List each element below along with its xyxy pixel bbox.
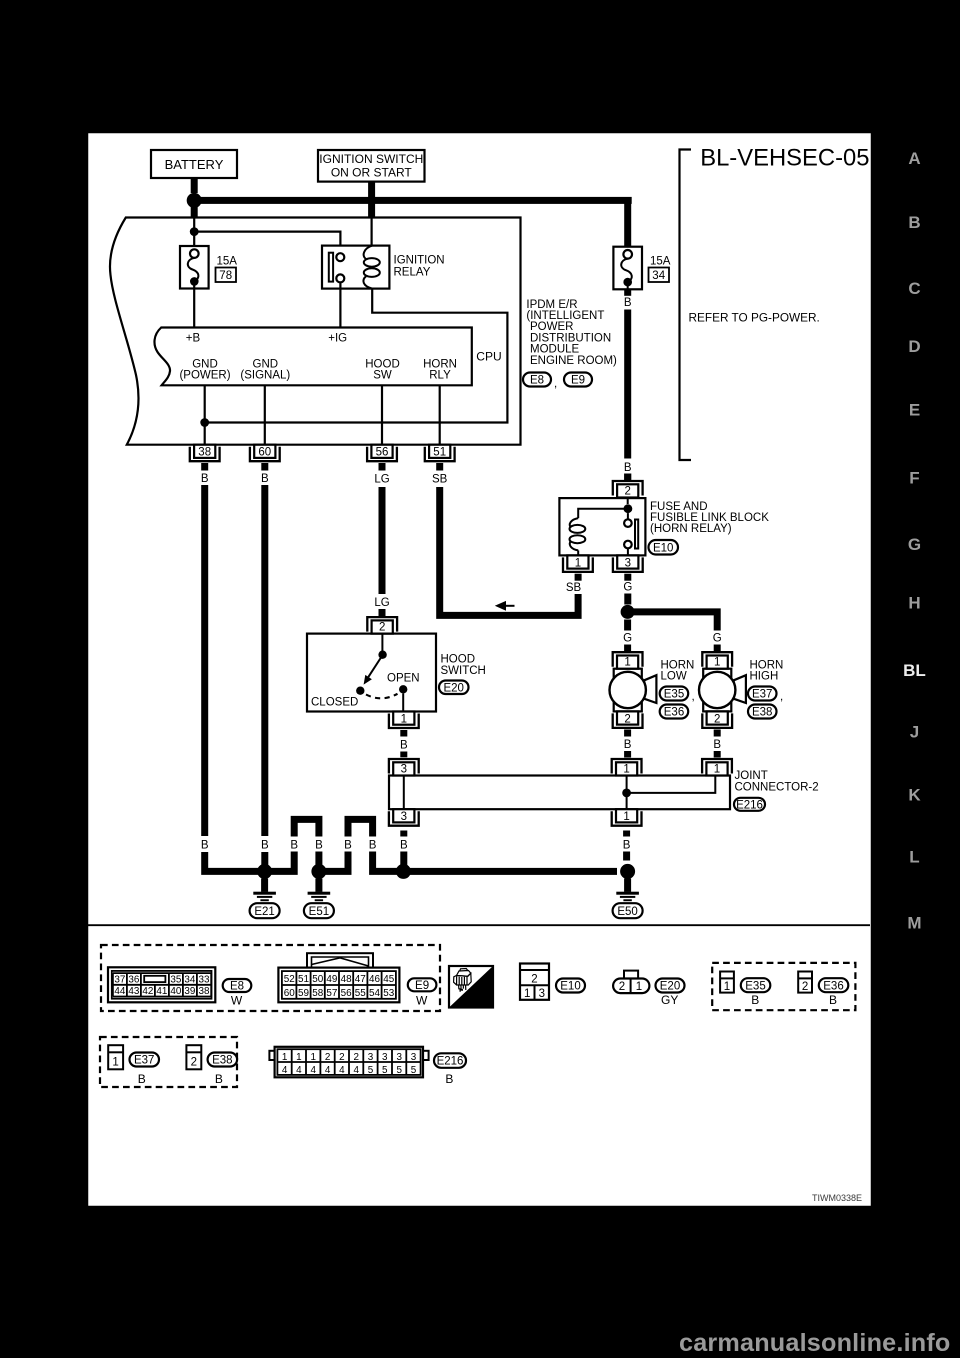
svg-text:(HORN RELAY): (HORN RELAY): [650, 523, 732, 535]
svg-text:2: 2: [353, 1052, 359, 1063]
svg-text:E51: E51: [309, 906, 329, 918]
svg-text:LOW: LOW: [661, 671, 687, 683]
svg-text:+IG: +IG: [328, 332, 347, 344]
node battery junction: [187, 193, 202, 208]
IPDM E/R box: [110, 218, 521, 445]
svg-text:E35: E35: [664, 689, 684, 701]
svg-text:BATTERY: BATTERY: [165, 157, 224, 172]
svg-text:44: 44: [114, 986, 125, 997]
joint connector pin 1 bottom: [612, 809, 642, 826]
ground E50: [616, 878, 639, 901]
wire G to horn low: [624, 620, 631, 631]
wire B joint pin1 to E50: [623, 831, 630, 837]
svg-text:3: 3: [401, 811, 407, 823]
svg-text:,: ,: [554, 378, 557, 390]
connector E36 face: [798, 972, 812, 994]
ground E51: [308, 878, 331, 901]
svg-text:2: 2: [325, 1052, 331, 1063]
horn high E37/E38: [699, 669, 746, 712]
svg-text:B: B: [713, 739, 721, 751]
svg-text:B: B: [315, 840, 323, 852]
svg-text:SB: SB: [566, 582, 582, 594]
svg-text:,: ,: [780, 691, 783, 703]
wire GND(POWER) to pin 38: [204, 385, 206, 445]
wire B hood switch to joint connector: [400, 730, 407, 737]
wire battery to IPDM: [191, 207, 198, 218]
svg-text:FUSIBLE LINK BLOCK: FUSIBLE LINK BLOCK: [650, 512, 769, 524]
connector E8 oval: [523, 373, 557, 391]
wire B horn high to joint connector: [714, 730, 721, 737]
svg-text:B: B: [624, 297, 632, 309]
svg-text:3: 3: [396, 1052, 402, 1063]
svg-text:4: 4: [325, 1065, 331, 1076]
svg-text:55: 55: [355, 988, 366, 999]
hood switch pin 1: [389, 712, 419, 729]
horn high pin 1: [702, 652, 732, 669]
node E50: [620, 864, 635, 879]
wire B joint pin3 to ground bus: [400, 831, 407, 837]
svg-text:33: 33: [199, 975, 210, 986]
svg-text:36: 36: [128, 975, 139, 986]
svg-text:HIGH: HIGH: [750, 671, 779, 683]
hood switch pin 2: [367, 617, 397, 634]
svg-text:5: 5: [396, 1065, 402, 1076]
horn low pin 1: [613, 652, 643, 669]
svg-text:F: F: [909, 468, 919, 487]
svg-text:2: 2: [624, 486, 630, 498]
svg-text:2: 2: [531, 974, 537, 986]
svg-text:34: 34: [652, 270, 665, 282]
connector E36 oval: [660, 705, 689, 719]
node E21: [257, 864, 272, 879]
wire ground bus to E50: [403, 868, 617, 875]
svg-text:1: 1: [282, 1052, 288, 1063]
svg-text:2: 2: [191, 1057, 197, 1069]
E36 oval and B: [819, 978, 849, 992]
svg-text:43: 43: [128, 986, 139, 997]
wire B horn low to joint connector: [624, 730, 631, 737]
svg-text:2: 2: [802, 981, 808, 993]
wire main power bus: [200, 197, 632, 204]
svg-text:2: 2: [379, 622, 385, 634]
svg-text:51: 51: [433, 447, 446, 459]
joint connector pin 3 top: [389, 759, 419, 776]
svg-text:E9: E9: [415, 980, 429, 992]
svg-text:JOINT: JOINT: [735, 770, 768, 782]
svg-text:carmanualsonline.info: carmanualsonline.info: [679, 1329, 951, 1357]
svg-text:IGNITION: IGNITION: [394, 255, 445, 267]
bracket refer to pg-power: [680, 150, 692, 461]
svg-text:B: B: [624, 739, 632, 751]
svg-text:3: 3: [625, 557, 631, 569]
connector E20 oval: [439, 681, 469, 695]
ignition relay U1: [322, 246, 445, 289]
svg-text:E20: E20: [660, 981, 680, 993]
svg-text:G: G: [713, 633, 722, 645]
svg-text:RELAY: RELAY: [394, 267, 431, 279]
svg-text:REFER TO PG-POWER.: REFER TO PG-POWER.: [689, 311, 820, 325]
svg-text:1: 1: [401, 713, 407, 725]
svg-text:K: K: [908, 786, 921, 805]
svg-text:W: W: [231, 994, 243, 1008]
wire bus corner down to fuse 34: [624, 200, 631, 247]
svg-text:E9: E9: [571, 375, 585, 387]
svg-text:E10: E10: [560, 981, 580, 993]
svg-text:GND: GND: [192, 358, 218, 370]
svg-text:54: 54: [369, 988, 380, 999]
wire battery stub: [191, 178, 198, 193]
svg-text:L: L: [909, 847, 919, 866]
connector E20 face: [613, 971, 649, 994]
svg-text:1: 1: [724, 981, 730, 993]
svg-text:1: 1: [623, 764, 629, 776]
svg-text:48: 48: [341, 974, 352, 985]
svg-text:4: 4: [282, 1065, 288, 1076]
node +B branch: [190, 227, 199, 236]
wire ignition relay coil output to horn relay pin: [206, 289, 507, 423]
svg-text:E35: E35: [745, 980, 765, 992]
svg-text:E38: E38: [212, 1055, 232, 1067]
svg-text:3: 3: [539, 988, 545, 1000]
E37 oval and B: [130, 1053, 160, 1067]
svg-text:1: 1: [112, 1057, 118, 1069]
svg-text:5: 5: [382, 1065, 388, 1076]
svg-text:42: 42: [142, 986, 153, 997]
svg-text:1: 1: [296, 1052, 302, 1063]
svg-text:B: B: [344, 840, 352, 852]
svg-text:51: 51: [298, 974, 309, 985]
svg-text:47: 47: [355, 974, 366, 985]
svg-text:3: 3: [411, 1052, 417, 1063]
wire HORN RLY to pin 51: [439, 385, 441, 445]
E38 oval and B: [208, 1053, 238, 1067]
svg-text:41: 41: [156, 986, 167, 997]
connector E38 face: [186, 1045, 201, 1069]
svg-text:3: 3: [382, 1052, 388, 1063]
svg-text:60: 60: [284, 988, 295, 999]
svg-text:2: 2: [624, 713, 630, 725]
wire +B into CPU: [193, 285, 195, 328]
svg-text:58: 58: [312, 988, 323, 999]
battery B+ box: [151, 150, 237, 178]
svg-text:2: 2: [619, 981, 625, 993]
svg-text:1: 1: [714, 657, 720, 669]
svg-text:60: 60: [258, 447, 271, 459]
svg-text:39: 39: [184, 986, 195, 997]
svg-text:G: G: [908, 535, 921, 554]
svg-text:FUSE AND: FUSE AND: [650, 501, 708, 513]
svg-text:C: C: [908, 279, 920, 298]
svg-text:5: 5: [368, 1065, 374, 1076]
svg-text:37: 37: [114, 975, 125, 986]
label FUSE AND FUSIBLE LINK BLOCK: [650, 501, 769, 535]
svg-text:E216: E216: [736, 799, 763, 811]
wire staple 2: [348, 819, 373, 836]
svg-text:B: B: [400, 840, 408, 852]
svg-text:15A: 15A: [217, 256, 238, 268]
wire +IG from relay contact: [339, 282, 341, 327]
sidebar index letters: [903, 149, 926, 932]
svg-text:SWITCH: SWITCH: [441, 665, 486, 677]
svg-text:D: D: [908, 337, 920, 356]
svg-text:LG: LG: [374, 597, 389, 609]
E20 oval and GY: [656, 979, 685, 993]
hood switch E20: [307, 634, 436, 712]
svg-text:CPU: CPU: [476, 350, 501, 364]
wire G branch to horn high: [633, 612, 717, 631]
svg-text:GND: GND: [253, 358, 279, 370]
svg-text:HOOD: HOOD: [441, 654, 476, 666]
svg-text:56: 56: [341, 988, 352, 999]
svg-text:DISTRIBUTION: DISTRIBUTION: [530, 332, 611, 344]
svg-text:1: 1: [624, 657, 630, 669]
connector E35 face: [720, 972, 734, 994]
svg-text:1: 1: [575, 557, 581, 569]
svg-text:4: 4: [339, 1065, 345, 1076]
node feedback on GND(POWER): [200, 418, 209, 427]
svg-text:3: 3: [368, 1052, 374, 1063]
svg-text:B: B: [623, 840, 631, 852]
svg-text:B: B: [215, 1072, 223, 1086]
svg-text:E216: E216: [437, 1056, 464, 1068]
svg-text:3: 3: [401, 764, 407, 776]
joint connector pin 3 bottom: [389, 809, 419, 826]
E10 oval: [556, 979, 585, 993]
E9 oval and W: [408, 978, 437, 991]
svg-text:(INTELLIGENT: (INTELLIGENT: [526, 310, 604, 322]
svg-text:SB: SB: [432, 474, 448, 486]
svg-text:A: A: [908, 149, 920, 168]
svg-text:SW: SW: [373, 370, 392, 382]
svg-text:B: B: [261, 840, 269, 852]
svg-text:HOOD: HOOD: [365, 358, 400, 370]
svg-text:ENGINE ROOM): ENGINE ROOM): [530, 355, 617, 367]
svg-text:B: B: [290, 840, 298, 852]
node G junction: [621, 605, 635, 619]
fuse and fusible link block (horn relay) E10: [559, 498, 645, 556]
ignition switch box: [318, 150, 425, 182]
joint connector pin 1 top left: [612, 759, 642, 776]
svg-text:1: 1: [714, 764, 720, 776]
ground E21: [253, 878, 276, 901]
svg-text:4: 4: [353, 1065, 359, 1076]
E8 oval and W: [223, 979, 252, 992]
svg-text:LG: LG: [374, 474, 389, 486]
svg-text:B: B: [138, 1072, 146, 1086]
pin 56: [367, 445, 397, 462]
joint connector pin 1 top right: [702, 759, 732, 776]
svg-text:E50: E50: [617, 906, 637, 918]
wire ignition switch to relay coil: [371, 218, 373, 246]
svg-text:34: 34: [184, 975, 195, 986]
horn low pin 2: [613, 711, 643, 728]
IPDM E/R label: [526, 299, 617, 367]
connector E38 oval: [748, 705, 777, 719]
pin 51: [425, 445, 455, 462]
svg-text:E38: E38: [752, 707, 772, 719]
svg-text:B: B: [261, 473, 269, 485]
wire pin60 into E21: [261, 852, 268, 866]
node E51: [311, 864, 326, 879]
wire pin38 corner to E21: [205, 852, 265, 871]
connector E9 face: [278, 953, 399, 1002]
wire HOOD SW to pin 56: [381, 385, 383, 445]
svg-text:50: 50: [312, 974, 323, 985]
svg-text:B: B: [400, 740, 408, 752]
horn relay E10 pin 2: [613, 481, 643, 498]
svg-text:78: 78: [219, 270, 232, 282]
connector E216 oval: [734, 798, 765, 811]
svg-text:M: M: [907, 913, 921, 932]
svg-text:HORN: HORN: [423, 358, 457, 370]
svg-text:E21: E21: [254, 906, 274, 918]
connector E37 oval: [748, 687, 777, 701]
svg-text:1: 1: [310, 1052, 316, 1063]
svg-text:G: G: [623, 633, 632, 645]
svg-text:38: 38: [199, 986, 210, 997]
svg-text:G: G: [623, 582, 632, 594]
svg-text:E37: E37: [134, 1055, 154, 1067]
svg-text:CONNECTOR-2: CONNECTOR-2: [735, 782, 819, 794]
svg-text:B: B: [624, 462, 632, 474]
svg-text:B: B: [829, 993, 837, 1007]
svg-text:5: 5: [411, 1065, 417, 1076]
svg-text:49: 49: [326, 974, 337, 985]
svg-text:E8: E8: [530, 375, 544, 387]
dashed group E37/E38: [100, 1037, 237, 1087]
connector E216 face: [269, 1047, 428, 1078]
svg-text:ON OR START: ON OR START: [331, 165, 413, 179]
svg-text:1: 1: [623, 811, 629, 823]
svg-text:56: 56: [376, 447, 389, 459]
joint connector-2: [389, 776, 730, 810]
dashed group E8/E9: [101, 945, 440, 1011]
svg-text:E: E: [909, 400, 920, 419]
svg-text:OPEN: OPEN: [387, 672, 420, 684]
svg-text:B: B: [445, 1072, 453, 1086]
svg-text:2: 2: [714, 713, 720, 725]
svg-text:BL-VEHSEC-05: BL-VEHSEC-05: [700, 145, 869, 172]
pin 60: [250, 445, 280, 462]
svg-text:IPDM E/R: IPDM E/R: [526, 299, 577, 311]
svg-text:46: 46: [369, 974, 380, 985]
svg-text:52: 52: [284, 974, 295, 985]
svg-text:POWER: POWER: [530, 321, 573, 333]
wire G from horn relay pin3: [624, 574, 631, 581]
svg-text:35: 35: [170, 975, 181, 986]
svg-text:4: 4: [310, 1065, 316, 1076]
E216 oval and B: [434, 1053, 466, 1068]
svg-text:CLOSED: CLOSED: [311, 697, 358, 709]
node hood switch ground junction: [396, 864, 411, 879]
horn high pin 2: [702, 711, 732, 728]
dashed group E35/E36: [712, 963, 855, 1010]
svg-text:E10: E10: [653, 542, 673, 554]
svg-text:HORN: HORN: [750, 660, 784, 672]
pin 38: [190, 445, 220, 462]
svg-text:45: 45: [383, 974, 394, 985]
svg-text:GY: GY: [661, 993, 678, 1007]
connector E35 oval: [660, 687, 689, 701]
svg-text:B: B: [751, 993, 759, 1007]
svg-text:59: 59: [298, 988, 309, 999]
svg-text:E20: E20: [443, 682, 463, 694]
connector E8 face: [108, 967, 215, 1002]
svg-text:MODULE: MODULE: [530, 344, 580, 356]
horn low E35/E36: [610, 669, 657, 712]
svg-text:RLY: RLY: [429, 370, 451, 382]
svg-text:E36: E36: [664, 707, 684, 719]
svg-text:TIWM0338E: TIWM0338E: [812, 1193, 862, 1203]
wire +B feed inside IPDM: [193, 218, 195, 251]
svg-text:E8: E8: [230, 981, 244, 993]
svg-text:40: 40: [170, 986, 181, 997]
svg-text:57: 57: [326, 988, 337, 999]
svg-text:B: B: [908, 213, 920, 232]
svg-text:IGNITION SWITCH: IGNITION SWITCH: [319, 152, 423, 166]
svg-text:4: 4: [296, 1065, 302, 1076]
svg-text:E37: E37: [752, 689, 772, 701]
connector E9 oval: [564, 373, 592, 387]
svg-text:1: 1: [524, 988, 530, 1000]
svg-text:J: J: [910, 723, 919, 742]
svg-text:,: ,: [692, 691, 695, 703]
svg-text:1: 1: [636, 981, 642, 993]
connector E10 oval: [649, 540, 679, 555]
svg-text:W: W: [416, 994, 428, 1008]
horn relay pin 3: [613, 555, 643, 572]
wire +B branch to relay contact: [194, 232, 340, 254]
fuse 15A 78: [180, 246, 237, 289]
svg-text:53: 53: [383, 988, 394, 999]
arrow direction: [495, 601, 506, 611]
wire GND(SIGNAL) to pin 60: [264, 385, 266, 445]
connector E37 face: [108, 1045, 123, 1069]
fuse 15A 34: [613, 247, 670, 290]
svg-text:B: B: [369, 840, 377, 852]
wire staple 1: [294, 819, 319, 836]
svg-text:+B: +B: [186, 332, 201, 344]
svg-text:38: 38: [198, 447, 211, 459]
E35 oval and B: [741, 978, 771, 992]
svg-text:HORN: HORN: [661, 660, 695, 672]
separator line: [88, 924, 870, 926]
svg-text:2: 2: [339, 1052, 345, 1063]
svg-text:(SIGNAL): (SIGNAL): [240, 370, 290, 382]
svg-text:BL: BL: [903, 661, 926, 680]
svg-text:15A: 15A: [650, 256, 671, 268]
CPU box: [154, 328, 471, 386]
wire ignition switch stub: [368, 182, 375, 219]
svg-text:E36: E36: [823, 980, 843, 992]
svg-text:B: B: [201, 473, 209, 485]
horn relay pin 1: [563, 555, 593, 572]
svg-text:H: H: [908, 594, 920, 613]
connector E10 face: [520, 964, 549, 1000]
svg-text:(POWER): (POWER): [179, 370, 230, 382]
svg-text:B: B: [201, 840, 209, 852]
H.S. mark: [449, 966, 493, 1008]
